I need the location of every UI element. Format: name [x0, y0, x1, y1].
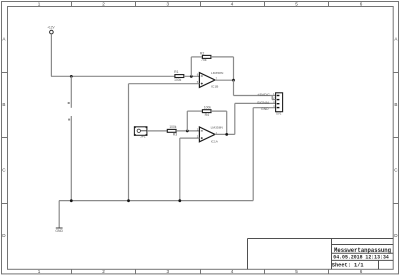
wire stub lower (net GND): [70, 116, 72, 201]
svg-text:6: 6: [360, 1, 363, 6]
svg-text:100k: 100k: [169, 125, 176, 129]
power +12V supply symbol P1: [47, 26, 55, 34]
svg-text:SV1: SV1: [276, 112, 282, 116]
wire feedback top left segment IC1A: [187, 110, 202, 112]
wire feedback up from IC1A minus node: [186, 111, 188, 131]
svg-text:100k: 100k: [204, 105, 211, 109]
wire feedback down to IC1B output: [233, 57, 235, 80]
label net +12V (rotated tiny): [68, 102, 70, 104]
wire IC1B plus input: [129, 83, 200, 85]
title block: [248, 239, 394, 270]
pin 1 pad: [277, 95, 280, 96]
svg-text:R1: R1: [174, 70, 179, 74]
wire GND rail left drop: [58, 201, 60, 228]
svg-text:3: 3: [167, 269, 170, 274]
svg-text:+12V: +12V: [47, 26, 55, 30]
junction IC1A output node: [225, 133, 228, 136]
junction GND rail / IC1A plus: [178, 199, 181, 202]
svg-text:3: 3: [167, 1, 170, 6]
svg-text:LM358N: LM358N: [211, 71, 223, 75]
wire feedback down to IC1A output: [226, 111, 228, 134]
wire signal to connector pin3: [235, 102, 276, 104]
junction +12V rail / stub: [70, 75, 73, 78]
svg-text:04.05.2018 12:13:34: 04.05.2018 12:13:34: [333, 255, 389, 261]
wire GND rail up to connector pin4: [252, 108, 254, 201]
resistor R3: [167, 125, 177, 137]
junction node at IC1B minus input: [190, 75, 193, 78]
junction IC1B output node: [232, 79, 235, 82]
wire feedback top left segment: [191, 56, 202, 58]
wire signal up: [234, 103, 236, 134]
svg-text:GND: GND: [261, 107, 269, 111]
resistor R1: [174, 70, 184, 82]
pin 2 pad: [277, 99, 280, 100]
wire to connector pin1 +5VDC: [234, 95, 276, 97]
wire R1 to IC1B minus input: [184, 75, 200, 77]
svg-text:R2: R2: [200, 51, 205, 55]
connector JP1: [134, 126, 147, 138]
wire +12V stem: [50, 34, 52, 76]
wire IC1A plus input drop to GND rail: [179, 138, 181, 201]
svg-text:2: 2: [102, 269, 105, 274]
svg-text:B: B: [394, 102, 397, 107]
svg-text:5: 5: [295, 269, 298, 274]
junction GND rail / stub: [70, 199, 73, 202]
svg-text:R4: R4: [205, 113, 210, 117]
jog pins 1-2: [271, 96, 273, 100]
pin 3 pad: [277, 103, 280, 104]
svg-text:Messwertanpassung: Messwertanpassung: [334, 247, 391, 254]
svg-text:+5VDC: +5VDC: [257, 93, 270, 97]
svg-text:GND: GND: [55, 229, 63, 233]
svg-text:1: 1: [38, 1, 41, 6]
ground symbol GND: [55, 228, 63, 233]
svg-text:5: 5: [295, 1, 298, 6]
svg-text:LM358N: LM358N: [211, 126, 223, 130]
wire output down: [233, 80, 235, 95]
pin 4 pad: [277, 107, 280, 108]
wire JP1 to R3: [147, 130, 168, 132]
op-amp IC1B: [197, 71, 224, 89]
wire GND rail: [59, 200, 253, 202]
resistor R2: [200, 51, 211, 62]
svg-text:75k: 75k: [201, 58, 207, 62]
svg-text:B: B: [2, 102, 5, 107]
resistor R4: [202, 105, 211, 117]
minus mark: [201, 130, 203, 132]
junction node at IC1A minus input: [186, 130, 189, 133]
svg-text:4: 4: [231, 1, 234, 6]
svg-text:2: 2: [102, 1, 105, 6]
label net GND (rotated tiny): [68, 119, 70, 121]
wire stub upper (net +12V): [70, 76, 72, 108]
wire IC1A plus input: [180, 137, 200, 139]
plus mark: [201, 137, 203, 139]
svg-text:SIGNAL: SIGNAL: [257, 101, 270, 105]
svg-text:1: 1: [38, 269, 41, 274]
svg-text:IC1B: IC1B: [211, 84, 218, 88]
wire IC1B output: [215, 79, 234, 81]
wire feedback up from minus node: [190, 57, 192, 76]
svg-text:4: 4: [231, 269, 234, 274]
wire IC1B plus input drop to GND rail: [128, 84, 130, 201]
wire feedback top right segment IC1A: [211, 110, 227, 112]
svg-text:R3: R3: [173, 133, 178, 137]
minus mark: [201, 75, 203, 77]
op-amp IC1A: [197, 126, 223, 144]
wire GND to connector pin4: [253, 107, 275, 109]
wire +12V rail to R1: [51, 75, 175, 77]
svg-text:IC1A: IC1A: [211, 139, 219, 143]
svg-text:6: 6: [360, 269, 363, 274]
wire IC1A output: [215, 133, 235, 135]
svg-text:Sheet: 1/1: Sheet: 1/1: [332, 262, 364, 269]
wire R3 to IC1A minus input: [176, 130, 200, 132]
connector SV1: [272, 92, 282, 116]
wire feedback top right segment: [211, 56, 234, 58]
plus mark: [201, 83, 203, 85]
pin 2 stub lead: [272, 99, 275, 101]
junction GND rail / IC1B plus: [127, 199, 130, 202]
svg-text:JP1: JP1: [140, 135, 146, 139]
svg-text:100k: 100k: [174, 78, 181, 82]
